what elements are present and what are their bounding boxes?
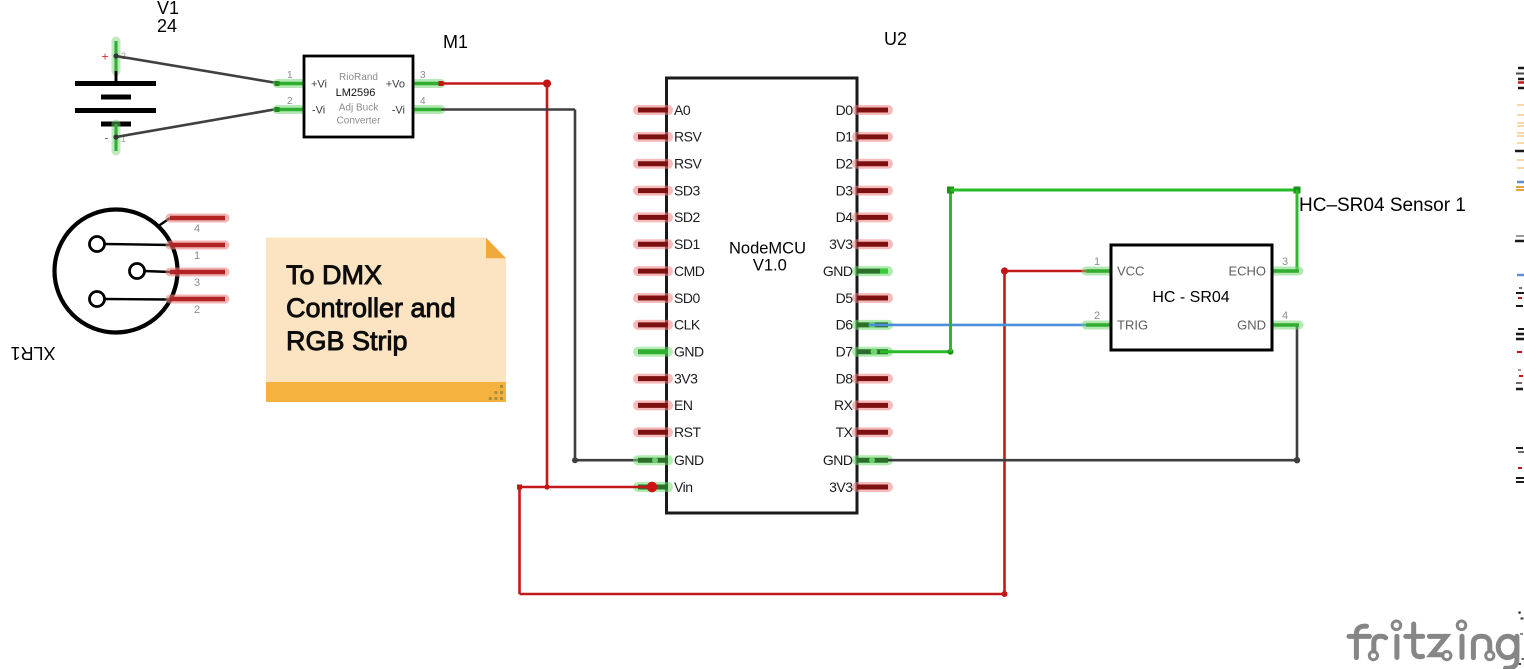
svg-text:RSV: RSV: [674, 156, 702, 172]
U2 pin RSV (left 2): [638, 129, 702, 145]
wire Vin net down-across (red): [520, 271, 1008, 597]
battery V1 label: [157, 0, 179, 36]
svg-text:4: 4: [420, 96, 426, 107]
U2 pin SD0 (left 8): [638, 290, 700, 306]
svg-text:D5: D5: [836, 290, 854, 306]
wire red to HC-SR04 VCC: [1001, 267, 1086, 274]
svg-text:2: 2: [287, 96, 293, 107]
battery V1 negative pin: [105, 124, 127, 151]
svg-text:D1: D1: [836, 129, 854, 145]
U2 pin GND (left 10): [638, 344, 704, 360]
svg-text:D3: D3: [836, 182, 854, 198]
U2 pin GND (left 14): [638, 452, 704, 468]
wire Vin net horizontal (red): [517, 482, 657, 492]
battery V1 positive pin: [102, 41, 127, 71]
wire dark GND right net: [888, 325, 1300, 463]
svg-text:Controller and: Controller and: [286, 293, 456, 323]
HC-SR04 pin 2 TRIG stub: [1086, 310, 1111, 325]
wire green D7 to ECHO: [880, 187, 1301, 355]
HC-SR04 pin 3 ECHO stub: [1272, 256, 1299, 271]
wire battery- to M1 -Vi: [113, 109, 277, 140]
XLR1 pin 4 stub: [170, 218, 225, 235]
wire blue D6 to TRIG: [869, 324, 1086, 327]
svg-text:VCC: VCC: [1117, 264, 1144, 279]
svg-text:RSV: RSV: [674, 129, 702, 145]
svg-text:HC–SR04 Sensor 1: HC–SR04 Sensor 1: [1299, 195, 1466, 216]
svg-text:EN: EN: [674, 397, 692, 413]
U2 pin A0 (left 1): [638, 102, 691, 118]
svg-text:NodeMCU: NodeMCU: [729, 240, 806, 258]
svg-text:GND: GND: [823, 263, 853, 279]
svg-text:-Vi: -Vi: [312, 105, 325, 117]
svg-text:4: 4: [194, 223, 200, 235]
U2 pin GND (right 14): [823, 452, 888, 468]
U2 pin D7 (right 10): [836, 344, 888, 360]
U2 pin D8 (right 11): [836, 370, 888, 386]
svg-text:LM2596: LM2596: [336, 87, 376, 99]
U2 pin SD1 (left 6): [638, 236, 700, 252]
svg-text:SD3: SD3: [674, 182, 700, 198]
M1 pin 4 -Vi stub: [413, 96, 441, 110]
svg-text:SD0: SD0: [674, 290, 700, 306]
svg-text:Converter: Converter: [337, 116, 382, 127]
svg-text:Adj Buck: Adj Buck: [339, 103, 379, 114]
svg-text:RST: RST: [674, 424, 701, 440]
svg-text:2: 2: [1094, 310, 1100, 322]
M1 pin 1 +Vi stub: [275, 70, 305, 86]
svg-text:XLR1: XLR1: [10, 343, 55, 363]
U2 pin D5 (right 8): [836, 290, 888, 306]
U2 pin D3 (right 4): [836, 182, 888, 198]
svg-text:3V3: 3V3: [829, 479, 853, 495]
XLR1 pin 3 stub: [170, 272, 225, 289]
svg-text:3V3: 3V3: [829, 236, 853, 252]
U2 pin CLK (left 9): [638, 317, 701, 333]
U2 pin 3V3 (right 15): [829, 479, 888, 495]
NodeMCU U2 name: [729, 240, 806, 275]
svg-text:24: 24: [157, 16, 177, 36]
svg-text:D4: D4: [836, 209, 854, 225]
HC-SR04 pin 1 VCC stub: [1086, 256, 1111, 271]
XLR1 pin 2 stub: [170, 299, 225, 316]
XLR1 pin 1 stub: [170, 245, 225, 262]
svg-text:A0: A0: [674, 102, 691, 118]
svg-text:3: 3: [420, 70, 426, 81]
svg-text:CMD: CMD: [674, 263, 705, 279]
U2 pin 3V3 (right 6): [829, 236, 888, 252]
U2 pin Vin (left 15): [638, 479, 692, 495]
right edge clipped content marks: [1515, 67, 1524, 665]
svg-text:-: -: [105, 131, 109, 145]
svg-text:CLK: CLK: [674, 317, 701, 333]
svg-text:+: +: [102, 50, 109, 64]
svg-text:4: 4: [1282, 310, 1288, 322]
svg-text:2: 2: [194, 304, 200, 316]
svg-text:RGB Strip: RGB Strip: [286, 326, 408, 356]
svg-text:3: 3: [194, 277, 200, 289]
svg-text:D2: D2: [836, 156, 854, 172]
svg-text:V1.0: V1.0: [753, 257, 787, 275]
HC-SR04 pin 4 GND stub: [1272, 310, 1299, 325]
NodeMCU U2 body: [667, 78, 858, 513]
U2 pin 3V3 (left 11): [638, 370, 698, 386]
svg-text:GND: GND: [823, 452, 853, 468]
svg-text:SD2: SD2: [674, 209, 700, 225]
U2 pin TX (right 13): [836, 424, 888, 440]
battery V1 plates: [75, 71, 156, 124]
svg-text:3V3: 3V3: [674, 370, 698, 386]
U2 pin RSV (left 3): [638, 156, 702, 172]
svg-text:HC - SR04: HC - SR04: [1152, 289, 1229, 306]
U2 pin D4 (right 5): [836, 209, 888, 225]
svg-text:+Vi: +Vi: [311, 79, 327, 91]
svg-text:Vin: Vin: [674, 479, 692, 495]
svg-text:D7: D7: [836, 344, 854, 360]
U2 pin D0 (right 1): [836, 102, 888, 118]
svg-text:1: 1: [287, 70, 293, 81]
wire M1 +Vo to Vin net (red): [439, 80, 552, 488]
wire battery+ to M1 +Vi: [113, 53, 277, 83]
svg-text:RioRand: RioRand: [339, 72, 378, 83]
M1 pin 2 -Vi stub: [275, 96, 305, 112]
svg-text:M1: M1: [443, 32, 468, 52]
U2 pin SD2 (left 5): [638, 209, 700, 225]
svg-text:1: 1: [194, 250, 200, 262]
U2 pin D1 (right 2): [836, 129, 888, 145]
svg-text:D0: D0: [836, 102, 854, 118]
svg-text:1: 1: [1094, 256, 1100, 268]
svg-text:3: 3: [1282, 256, 1288, 268]
note To DMX Controller and RGB Strip: [266, 238, 506, 403]
fritzing watermark: [1349, 621, 1517, 668]
svg-text:D8: D8: [836, 370, 854, 386]
svg-text:TRIG: TRIG: [1117, 318, 1148, 333]
U2 pin RX (right 12): [834, 397, 888, 413]
HC-SR04 body: [1111, 245, 1272, 350]
M1 pin 3 +Vo stub: [413, 70, 441, 84]
wire M1 -Vi to GND net (dark): [441, 110, 646, 464]
svg-text:-Vi: -Vi: [392, 105, 405, 117]
U2 pin SD3 (left 4): [638, 182, 700, 198]
U2 pin GND (right 7): [823, 263, 888, 279]
U2 pin D2 (right 3): [836, 156, 888, 172]
svg-text:D6: D6: [836, 317, 854, 333]
svg-text:To DMX: To DMX: [286, 260, 382, 290]
U2 pin EN (left 12): [638, 397, 692, 413]
svg-text:GND: GND: [674, 344, 704, 360]
svg-text:TX: TX: [836, 424, 854, 440]
svg-text:ECHO: ECHO: [1228, 264, 1266, 279]
svg-text:+Vo: +Vo: [386, 79, 405, 91]
svg-text:U2: U2: [884, 29, 907, 49]
U2 pin CMD (left 7): [638, 263, 705, 279]
U2 pin RST (left 13): [638, 424, 701, 440]
buck converter M1 body: [304, 56, 413, 137]
svg-text:GND: GND: [674, 452, 704, 468]
XLR1 connector body: [55, 210, 178, 333]
svg-text:GND: GND: [1237, 318, 1266, 333]
U2 pin D6 (right 9): [836, 317, 888, 333]
svg-text:SD1: SD1: [674, 236, 700, 252]
svg-text:RX: RX: [834, 397, 854, 413]
